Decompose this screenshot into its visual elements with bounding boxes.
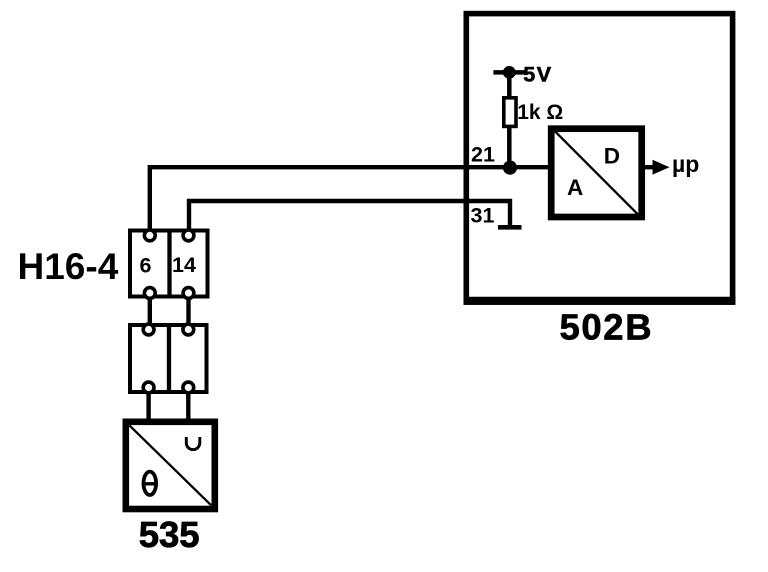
supply junction dot [503,66,516,79]
supply wire 5V [493,70,526,75]
arrowhead [653,160,670,175]
temperature sensor box 535 [126,422,215,509]
wire resistor to node 21 [507,126,512,168]
svg-text:21: 21 [471,143,495,167]
svg-text:A: A [567,175,583,200]
svg-text:µp: µp [672,151,699,177]
ECU box 502B [466,14,732,303]
connector lower box [130,325,207,392]
svg-text:1k Ω: 1k Ω [517,101,563,124]
sensor diagonal [129,425,211,505]
wire lower connector to sensor (right) [186,384,190,422]
pin circle upper box bottom-left [144,288,155,299]
A/D converter box [551,129,642,217]
sensor label theta [143,472,158,495]
svg-text:14: 14 [172,253,196,277]
pin circle upper box top-right (pin 14) [183,230,194,241]
pin circle lower box top-left [143,324,154,335]
A/D diagonal [554,131,639,216]
pin circle lower box bottom-left [143,382,154,393]
pin circle lower box top-right [183,324,194,335]
svg-text:6: 6 [140,254,152,278]
junction dot node 21 [503,161,517,175]
wire connector upper to lower (pin 14 side) [186,290,190,332]
arrow wire to microprocessor [644,165,654,169]
svg-text:D: D [604,143,620,168]
connector lower divider [167,325,171,392]
svg-text:31: 31 [471,204,495,228]
wire 31 from connector pin 14 to ground [189,201,510,238]
ground [498,225,522,230]
pin circle lower box bottom-right [183,382,194,393]
wire 5V to resistor [507,72,512,98]
connector upper divider [167,231,171,297]
sensor label U [186,437,200,450]
svg-text:H16-4: H16-4 [18,246,119,287]
svg-text:502B: 502B [560,307,654,348]
pin circle upper box top-left (pin 6) [144,230,155,241]
wire 21 from connector pin 6 to ADC input [150,167,549,238]
svg-text:5V: 5V [523,63,553,87]
resistor R1 1k [504,98,516,127]
connector H16-4 upper box [130,231,208,297]
svg-text:535: 535 [139,514,200,555]
pin circle upper box bottom-right [183,288,194,299]
wire lower connector to sensor (left) [146,384,150,422]
ECU box bottom edge [464,297,736,305]
wire connector upper to lower (pin 6 side) [148,290,152,332]
